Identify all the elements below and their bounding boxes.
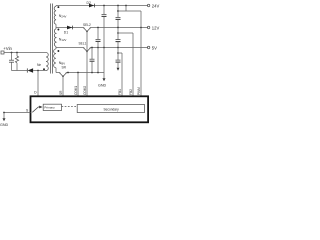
wire 12V sense horizontal — [118, 32, 133, 34]
transformer core — [51, 4, 53, 74]
svg-text:SR: SR — [62, 65, 67, 69]
transformer winding Nbias — [54, 48, 66, 73]
wire isolation dashed link — [62, 105, 78, 107]
op-amp U1 controller box — [31, 96, 149, 122]
capacitor C5b — [116, 48, 121, 68]
node 5V output terminal — [147, 45, 157, 50]
wire 5V line — [56, 47, 148, 49]
component Secondary block — [77, 105, 144, 113]
svg-text:Secondary: Secondary — [104, 107, 120, 111]
node 12V sense junction — [140, 27, 142, 29]
node 24V sense tap — [117, 10, 119, 12]
svg-text:SEL1: SEL1 — [79, 41, 87, 45]
svg-text:SEL2: SEL2 — [83, 23, 91, 27]
diode Dclamp — [27, 68, 33, 72]
svg-text:COM1: COM1 — [74, 86, 78, 95]
wire 12V line — [56, 27, 148, 29]
svg-text:PWM: PWM — [137, 87, 141, 95]
node 5V crossing junction — [103, 47, 105, 49]
svg-text:N12V: N12V — [59, 38, 67, 43]
node 5V crossing junction b — [97, 47, 99, 49]
wire 5V sense vertical — [121, 53, 123, 96]
svg-text:GND: GND — [0, 123, 9, 127]
svg-text:Primary: Primary — [44, 106, 55, 110]
node 24V output terminal — [147, 3, 159, 8]
wire S pin wire — [4, 112, 31, 114]
node rail junction d — [97, 72, 99, 74]
node 5V cap junction — [91, 47, 93, 49]
svg-text:24V: 24V — [152, 3, 160, 8]
wire 24V line — [56, 5, 148, 7]
capacitor Csn — [9, 53, 14, 71]
node 5V sense tap — [117, 52, 119, 54]
svg-text:FB1: FB1 — [118, 89, 122, 95]
transformer winding N12V — [54, 28, 66, 48]
wire FB select vertical — [86, 32, 88, 97]
capacitor C24 — [102, 6, 107, 73]
node +Vin terminal — [1, 46, 13, 54]
node switch node — [37, 70, 39, 72]
ground secondary GND — [98, 73, 107, 88]
capacitor C24b — [116, 6, 121, 28]
svg-text:+Vin: +Vin — [3, 46, 12, 51]
capacitor C5 — [90, 48, 95, 73]
svg-text:D: D — [34, 91, 37, 95]
wire 5V sense horizontal — [118, 52, 122, 54]
wire 24V sense stub — [125, 6, 127, 12]
svg-text:N24V: N24V — [59, 14, 67, 19]
node 5V cap2 junction — [117, 47, 119, 49]
transformer winding N24V — [54, 6, 66, 28]
svg-text:12V: 12V — [152, 25, 160, 30]
diode D2 — [87, 1, 95, 8]
wire drain wire — [37, 71, 39, 97]
svg-text:COM2: COM2 — [83, 86, 87, 95]
node rail junction a — [67, 72, 69, 74]
svg-text:5V: 5V — [152, 45, 157, 50]
node 12V sense tap — [117, 32, 119, 34]
wire SR pin vertical — [62, 77, 64, 97]
wire internal arrow — [32, 106, 42, 113]
node 12V cap junction — [97, 27, 99, 29]
svg-text:FB2: FB2 — [129, 89, 133, 95]
wire Vin line — [4, 52, 46, 54]
node C12b top junction — [117, 27, 119, 29]
transformer primary Np — [37, 53, 48, 71]
ground C5b GND arrow — [117, 68, 120, 71]
wire COM1 vertical — [77, 73, 79, 97]
svg-text:D2: D2 — [87, 1, 91, 5]
node 24V cap junction — [103, 5, 105, 7]
wire 24V sense vertical — [140, 11, 142, 96]
jumper SR — [60, 65, 67, 77]
node rail junction c — [91, 72, 93, 74]
node rail junction b — [77, 72, 79, 74]
node 12V output terminal — [147, 25, 159, 30]
svg-text:NP: NP — [37, 63, 41, 67]
node 24V cap2 junction — [117, 5, 119, 7]
resistor Rsn — [15, 53, 18, 71]
node primary GND junction — [3, 112, 5, 114]
jumper SEL2 — [83, 23, 91, 32]
diode D1 — [64, 26, 73, 35]
jumper SEL1 — [79, 41, 91, 52]
wire 12V sense vertical — [132, 33, 134, 96]
node snubber res junction — [16, 52, 18, 54]
node 24V sense junction — [125, 5, 127, 7]
svg-text:GND: GND — [98, 84, 107, 88]
wire 24V sense horizontal — [118, 10, 141, 12]
svg-text:S: S — [26, 108, 29, 112]
ground primary GND — [0, 113, 9, 127]
wire snubber rail — [12, 70, 47, 72]
capacitor C12 — [96, 28, 101, 73]
capacitor C12b — [116, 28, 121, 48]
svg-text:D1: D1 — [64, 30, 68, 34]
svg-text:SR: SR — [59, 90, 63, 95]
node snubber cap junction — [11, 52, 13, 54]
wire secondary ground rail — [56, 72, 104, 74]
component Primary block — [43, 104, 61, 110]
